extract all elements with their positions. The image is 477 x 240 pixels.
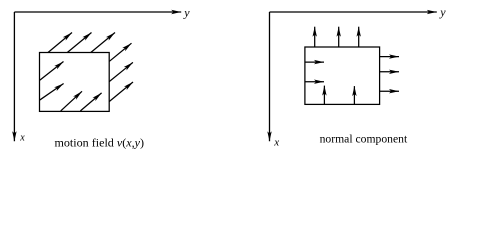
svg-text:x: x [19,133,25,144]
svg-text:x: x [273,137,279,149]
svg-text:y: y [439,5,446,19]
svg-text:normal component: normal component [320,131,408,145]
svg-text:y: y [183,5,190,19]
svg-text:motion field v(x,y): motion field v(x,y) [55,136,145,150]
